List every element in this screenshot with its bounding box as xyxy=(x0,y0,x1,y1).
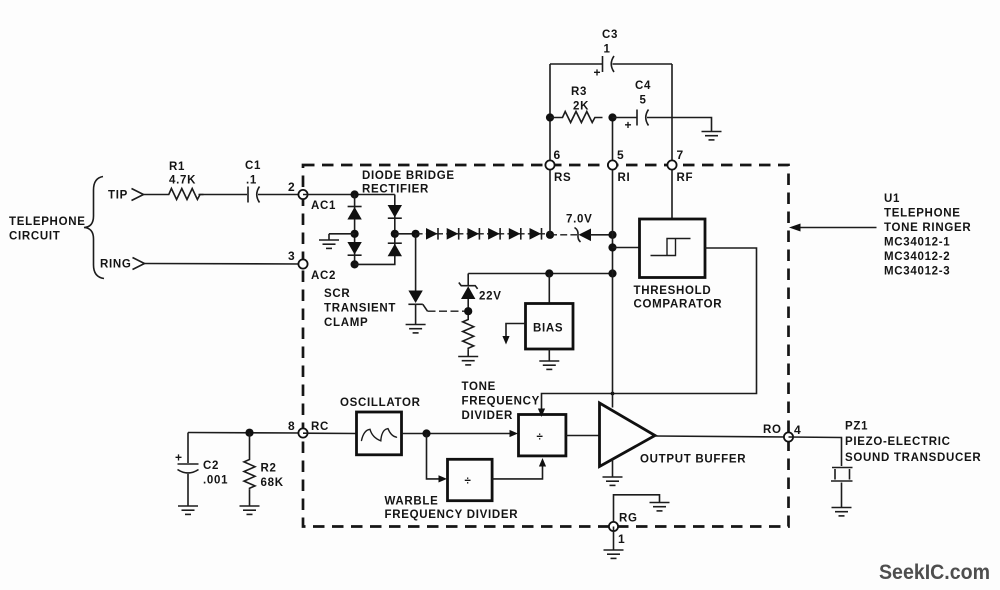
svg-text:C1: C1 xyxy=(245,160,261,172)
svg-text:BIAS: BIAS xyxy=(533,323,563,335)
wire RI vertical upper xyxy=(612,118,614,274)
junction bridge bottom-left xyxy=(351,260,359,268)
svg-text:8: 8 xyxy=(288,419,295,433)
wire oscillator output xyxy=(402,433,512,435)
BIAS box xyxy=(526,304,574,350)
junction RI at divider rail crossing xyxy=(611,392,615,396)
wire bridge right branch xyxy=(355,195,395,265)
wire RG stub up and right to ground xyxy=(614,495,660,527)
wire bridge mid to chain node xyxy=(395,233,416,235)
wire AC1 line into bridge xyxy=(303,194,395,196)
svg-text:AC1: AC1 xyxy=(311,200,336,212)
wire RS vertical xyxy=(549,64,551,235)
ground (SCR) xyxy=(406,325,426,333)
wire pin 8 to oscillator xyxy=(303,432,357,434)
wire RO to piezo xyxy=(789,437,842,466)
pin 3 (AC2) xyxy=(288,249,336,282)
svg-text:TONE: TONE xyxy=(462,381,497,393)
oscillator xyxy=(340,397,421,455)
svg-text:U1: U1 xyxy=(884,193,900,205)
svg-text:MC34012-1: MC34012-1 xyxy=(884,237,950,249)
svg-text:3: 3 xyxy=(288,249,295,263)
resistor R2 xyxy=(244,433,284,506)
svg-text:6: 6 xyxy=(554,148,561,162)
ground (RG bottom) xyxy=(604,550,624,558)
svg-text:.1: .1 xyxy=(246,175,257,187)
diode chain D5..D10 (6 diodes) xyxy=(416,228,550,240)
junction chain/SCR node xyxy=(412,230,420,238)
capacitor C3 xyxy=(550,29,672,80)
node TIP xyxy=(108,189,144,202)
wire to warble divider xyxy=(427,434,440,479)
svg-text:RO: RO xyxy=(763,424,782,436)
warble frequency divider box xyxy=(385,459,519,521)
junction R3 left xyxy=(546,113,554,121)
svg-text:68K: 68K xyxy=(261,477,284,489)
svg-text:4: 4 xyxy=(794,423,801,437)
svg-text:TELEPHONE: TELEPHONE xyxy=(9,216,86,228)
resistor (below zener) xyxy=(463,318,474,350)
ground (C4) xyxy=(702,132,722,140)
svg-text:÷: ÷ xyxy=(465,476,472,488)
diode bridge D2 (left lower, points down) xyxy=(347,242,361,255)
junction RI comparator tap xyxy=(608,243,616,251)
svg-text:TRANSIENT: TRANSIENT xyxy=(324,303,396,315)
svg-text:RG: RG xyxy=(619,513,638,525)
node RING xyxy=(100,258,145,271)
junction bias top xyxy=(545,269,553,277)
svg-text:+: + xyxy=(625,118,632,132)
svg-text:MC34012-3: MC34012-3 xyxy=(884,266,950,278)
svg-text:RING: RING xyxy=(100,259,132,271)
wire TIP to R1 xyxy=(144,194,166,196)
svg-text:R1: R1 xyxy=(169,161,185,173)
svg-text:CIRCUIT: CIRCUIT xyxy=(9,231,61,243)
ground (BIAS) xyxy=(539,361,559,369)
svg-text:+: + xyxy=(175,451,182,465)
junction oscillator node xyxy=(422,429,430,437)
pin 1 (RG) xyxy=(609,513,638,547)
wire RI to comparator input xyxy=(613,247,640,249)
svg-text:5: 5 xyxy=(640,95,647,107)
junction R3 right xyxy=(608,113,616,121)
wire RING to pin 3 xyxy=(145,263,304,266)
svg-text:7: 7 xyxy=(677,148,684,162)
op-amp output buffer xyxy=(600,403,747,467)
ground (C2) xyxy=(178,506,198,514)
wire buffer output to RO xyxy=(655,436,789,437)
capacitor C2 xyxy=(175,433,228,506)
wire bias rail xyxy=(468,273,612,275)
pin 8 (RC) xyxy=(288,419,329,438)
svg-text:C2: C2 xyxy=(203,460,219,472)
junction zener node xyxy=(464,307,472,315)
ground (RG right) xyxy=(650,503,670,511)
svg-text:7.0V: 7.0V xyxy=(566,214,592,226)
svg-text:OSCILLATOR: OSCILLATOR xyxy=(340,397,421,409)
wire bias stub xyxy=(548,274,550,304)
ground (bridge) xyxy=(319,234,339,249)
svg-text:PZ1: PZ1 xyxy=(845,421,868,433)
ground (piezo) xyxy=(832,508,852,516)
svg-text:DIVIDER: DIVIDER xyxy=(462,410,514,422)
ground (R2) xyxy=(240,506,260,514)
wire RI vertical lower xyxy=(612,274,614,408)
threshold comparator U1a xyxy=(634,219,723,311)
svg-text:AC2: AC2 xyxy=(311,270,336,282)
zener diode 22V xyxy=(459,274,502,319)
wire RF vertical xyxy=(671,64,673,219)
wire buffer bottom to ground xyxy=(612,460,614,477)
diode bridge D4 (right lower, points up) xyxy=(388,243,402,256)
wire comparator output xyxy=(542,248,757,410)
svg-text:FREQUENCY DIVIDER: FREQUENCY DIVIDER xyxy=(385,509,519,521)
svg-text:R2: R2 xyxy=(261,463,277,475)
svg-text:22V: 22V xyxy=(479,291,502,303)
ground (zener resistor) xyxy=(458,357,478,365)
svg-text:R3: R3 xyxy=(571,86,587,98)
svg-text:RS: RS xyxy=(554,172,571,184)
svg-text:4.7K: 4.7K xyxy=(169,175,196,187)
svg-text:RI: RI xyxy=(618,172,631,184)
svg-text:C3: C3 xyxy=(602,29,618,41)
junction R2 top xyxy=(245,429,253,437)
wire bridge left branch xyxy=(354,195,356,265)
svg-text:SeekIC.com: SeekIC.com xyxy=(879,560,990,584)
junction rail at RI xyxy=(608,269,616,277)
svg-text:.001: .001 xyxy=(203,475,228,487)
capacitor C4 xyxy=(613,80,712,132)
diode bridge D1 (left upper, points up) xyxy=(347,207,361,220)
svg-text:CLAMP: CLAMP xyxy=(324,317,368,329)
svg-text:PIEZO-ELECTRIC: PIEZO-ELECTRIC xyxy=(845,436,951,448)
ground (buffer) xyxy=(603,477,623,485)
wire C2/R2 to pin 8 xyxy=(188,432,303,435)
arrow into tone divider top xyxy=(538,409,545,418)
arrow into tone divider bottom xyxy=(539,458,546,467)
pin 5 (RI) xyxy=(608,148,631,184)
brace: TELEPHONE CIRCUIT xyxy=(9,177,104,279)
resistor R1 xyxy=(165,161,204,200)
bias output arrow xyxy=(502,324,525,345)
junction bridge right mid xyxy=(391,230,399,238)
svg-text:2: 2 xyxy=(288,180,295,194)
junction bridge left mid xyxy=(351,230,359,238)
diode bridge rectifier label xyxy=(362,170,455,196)
svg-text:RC: RC xyxy=(311,421,329,433)
svg-text:THRESHOLD: THRESHOLD xyxy=(634,285,712,297)
svg-text:5: 5 xyxy=(617,148,624,162)
junction chain at RS xyxy=(546,231,554,239)
svg-text:C4: C4 xyxy=(635,80,651,92)
wire tone divider to buffer xyxy=(566,435,600,437)
wire warble to tone divider xyxy=(492,466,542,479)
wire resistor to ground xyxy=(467,350,469,356)
svg-text:OUTPUT BUFFER: OUTPUT BUFFER xyxy=(640,454,746,466)
svg-text:1: 1 xyxy=(604,44,611,56)
svg-text:TIP: TIP xyxy=(108,190,128,202)
svg-text:DIODE BRIDGE: DIODE BRIDGE xyxy=(362,170,455,182)
svg-text:+: + xyxy=(594,66,601,80)
svg-text:1: 1 xyxy=(618,532,625,546)
piezo transducer PZ1 xyxy=(831,421,981,508)
pin 2 (AC1) xyxy=(288,180,336,212)
svg-text:TONE RINGER: TONE RINGER xyxy=(884,222,971,234)
diode 7.0V (points left) xyxy=(550,214,617,243)
svg-text:MC34012-2: MC34012-2 xyxy=(884,251,950,263)
diode bridge D3 (right upper, points down) xyxy=(388,205,402,218)
svg-text:SOUND TRANSDUCER: SOUND TRANSDUCER xyxy=(845,452,981,464)
pin 7 (RF) xyxy=(667,148,693,184)
U1 designation block xyxy=(884,193,971,278)
arrow into tone divider left xyxy=(510,430,519,437)
svg-text:COMPARATOR: COMPARATOR xyxy=(634,299,723,311)
SCR transient clamp xyxy=(324,234,428,329)
wire RG to ground xyxy=(613,527,615,550)
resistor R3 xyxy=(550,86,603,123)
IC U1 dashed boundary xyxy=(303,165,789,527)
svg-text:TELEPHONE: TELEPHONE xyxy=(884,208,961,220)
pin 6 (RS) xyxy=(545,148,571,184)
junction bridge top-left xyxy=(351,190,359,198)
svg-text:÷: ÷ xyxy=(537,432,544,444)
wire to bridge ground xyxy=(329,233,355,235)
svg-text:WARBLE: WARBLE xyxy=(385,496,439,508)
wire C1 to pin 2 xyxy=(258,194,303,196)
wire bias to ground xyxy=(548,349,550,361)
wire R1 to C1 xyxy=(199,194,248,196)
wire SCR gate to zener node xyxy=(428,310,469,312)
svg-text:FREQUENCY: FREQUENCY xyxy=(462,396,541,408)
svg-text:RF: RF xyxy=(677,172,694,184)
arrow into warble divider left xyxy=(439,475,448,482)
capacitor C1 xyxy=(245,160,261,203)
svg-text:SCR: SCR xyxy=(324,288,350,300)
tone frequency divider box xyxy=(462,381,566,456)
arrow U1 pointer xyxy=(789,224,877,232)
pin 4 (RO) xyxy=(763,423,801,442)
